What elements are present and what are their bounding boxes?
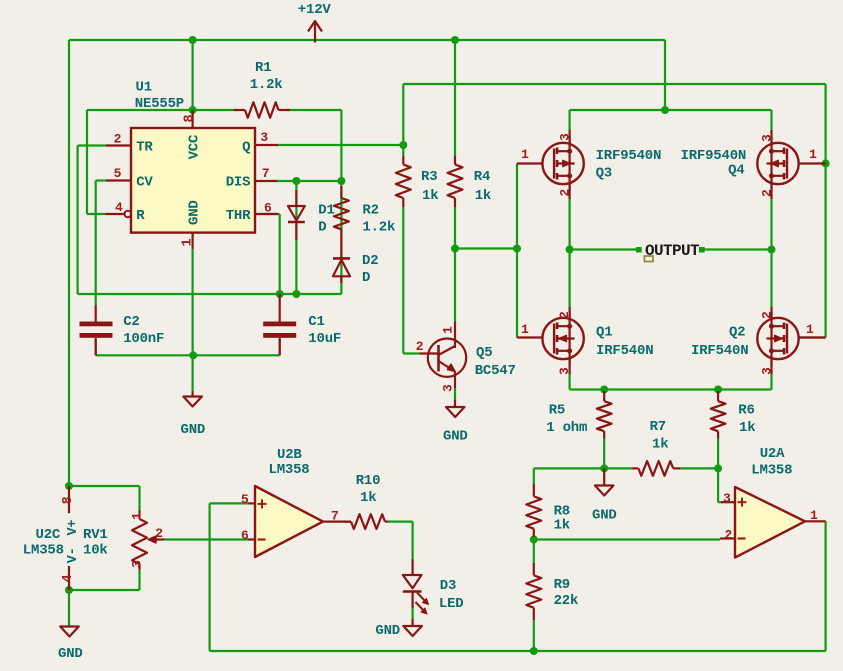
junction R5/R7/GND [600, 464, 608, 472]
svg-text:3: 3 [760, 367, 775, 375]
svg-text:IRF540N: IRF540N [596, 343, 653, 359]
wire R10 to D3 [412, 522, 414, 559]
svg-text:3: 3 [723, 491, 731, 506]
svg-text:V-: V- [66, 547, 81, 563]
wire U2A output drop [824, 521, 826, 651]
svg-text:2: 2 [725, 528, 733, 543]
svg-text:R9: R9 [554, 577, 570, 593]
LED D3 [412, 559, 414, 575]
svg-text:3: 3 [760, 134, 775, 142]
wire reset riser [86, 110, 88, 214]
wire R8/R9 node [533, 537, 535, 563]
junction DIS/R2 [337, 177, 345, 185]
junction bridge top [661, 106, 669, 114]
svg-text:R7: R7 [650, 419, 666, 435]
wire sense line y468 [534, 467, 632, 469]
wire TR-THR node y294 [78, 293, 342, 295]
svg-text:R10: R10 [356, 473, 381, 489]
junction U2C V+ node [65, 482, 73, 490]
svg-text:10k: 10k [83, 543, 108, 559]
svg-text:IRF9540N: IRF9540N [596, 148, 662, 164]
svg-text:4: 4 [115, 200, 123, 215]
wire RV1 top drop [138, 486, 140, 510]
svg-text:2: 2 [760, 189, 775, 197]
svg-text:3: 3 [130, 560, 145, 568]
resistor R6 [717, 391, 719, 401]
wire Q2 gate corner [799, 336, 826, 338]
junction THR/C1 node [276, 290, 284, 298]
wire R4 to node [454, 207, 456, 249]
wire +12V to bridge [664, 40, 666, 110]
svg-text:8: 8 [183, 115, 198, 123]
svg-text:D: D [362, 270, 370, 286]
wire bridge bottom [570, 388, 772, 390]
U1 pin 2 TR [106, 144, 131, 146]
ground GND1 (U1/C1/C2) [192, 391, 194, 396]
op-amp U2B LM358 [255, 486, 323, 557]
svg-text:GND: GND [181, 422, 206, 438]
svg-text:1: 1 [521, 147, 529, 162]
U1 pin 3 Q [255, 144, 278, 146]
U1 pin 1 GND [192, 233, 194, 249]
wire R8 drop [533, 468, 535, 484]
svg-text:3: 3 [441, 384, 456, 392]
svg-text:+12V: +12V [298, 2, 332, 18]
IC U1 NE555P body [131, 128, 255, 233]
svg-text:C1: C1 [308, 314, 324, 330]
wire C1 C2 bottom line [95, 339, 97, 355]
svg-text:LM358: LM358 [23, 543, 64, 559]
wire R1 right drop [340, 110, 342, 181]
junction OUTPUT right [768, 246, 776, 254]
svg-text:R2: R2 [362, 203, 378, 219]
svg-text:3: 3 [260, 130, 268, 145]
svg-text:1k: 1k [360, 490, 376, 506]
svg-text:1k: 1k [422, 188, 438, 204]
svg-text:5: 5 [114, 166, 122, 181]
svg-text:DIS: DIS [226, 175, 251, 191]
wire Q2 source drop [770, 373, 772, 390]
svg-text:Q4: Q4 [728, 162, 744, 178]
junction VCC pin [189, 106, 197, 114]
resistor R7 [632, 467, 638, 469]
junction R7/R6/U2A+ [714, 464, 722, 472]
svg-text:6: 6 [264, 200, 272, 215]
resistor R9 [533, 563, 535, 576]
svg-text:3: 3 [557, 367, 572, 375]
junction R4/Q5 collector node [451, 245, 459, 253]
svg-text:R5: R5 [549, 403, 565, 419]
svg-text:Q: Q [242, 140, 250, 156]
wire right gate drop [824, 84, 826, 338]
svg-text:LED: LED [439, 596, 464, 612]
wire DIS line [277, 180, 341, 182]
svg-text:GND: GND [592, 508, 617, 524]
junction top rail / VCC drop [189, 36, 197, 44]
svg-text:GND: GND [443, 429, 468, 445]
junction Q4 gate [822, 160, 830, 168]
svg-text:LM358: LM358 [269, 462, 310, 478]
svg-text:R6: R6 [738, 403, 754, 419]
svg-text:1k: 1k [475, 188, 491, 204]
ground GND2 (Q5) [454, 399, 456, 407]
svg-text:2: 2 [114, 131, 122, 146]
wire Q riser to y84 [402, 84, 404, 145]
junction DIS/D1 [292, 177, 300, 185]
junction gate column [513, 245, 521, 253]
resistor R10 [344, 520, 351, 522]
wire R5 bottom [603, 439, 605, 469]
svg-text:R3: R3 [421, 169, 437, 185]
svg-text:2: 2 [557, 311, 572, 319]
wire U2B plus riser [209, 503, 211, 651]
svg-text:2: 2 [760, 311, 775, 319]
mosfet Q4 IRF9540N [757, 143, 798, 184]
wire +12V top rail [69, 39, 665, 41]
wire Q4 source to Q2 drain column [770, 199, 772, 308]
wire R4 drop [454, 40, 456, 156]
svg-text:D: D [318, 220, 326, 236]
svg-text:R4: R4 [474, 169, 490, 185]
U1 pin 7 DIS [255, 180, 277, 182]
power symbol +12V [314, 21, 316, 43]
svg-text:D2: D2 [362, 253, 378, 269]
wire bottom feedback rail [210, 650, 826, 652]
wire OUTPUT right segment [699, 248, 772, 250]
U1 pin 8 VCC [192, 110, 194, 128]
wire left rail [68, 40, 70, 486]
wire mid gate link [455, 247, 517, 249]
svg-text:1: 1 [806, 322, 814, 337]
op-amp U2C power unit LM358 [68, 486, 70, 513]
svg-text:1: 1 [521, 322, 529, 337]
wire U2C top link [69, 485, 140, 487]
svg-text:IRF540N: IRF540N [691, 343, 748, 359]
junction R5 top [600, 386, 608, 394]
wire R6 bottom [717, 439, 719, 469]
wire R9 bottom [533, 620, 535, 651]
svg-text:1 ohm: 1 ohm [546, 420, 587, 436]
svg-text:LM358: LM358 [751, 463, 792, 479]
svg-text:D3: D3 [440, 578, 456, 594]
wire CV to C2 [96, 179, 106, 181]
wire node VCC-R line y110 [87, 109, 239, 111]
svg-text:100nF: 100nF [123, 331, 164, 347]
svg-text:8: 8 [61, 496, 76, 504]
svg-text:RV1: RV1 [83, 527, 108, 543]
svg-text:4: 4 [61, 575, 76, 583]
junction GND drop [189, 351, 197, 359]
svg-text:TR: TR [136, 140, 153, 156]
svg-text:22k: 22k [554, 593, 579, 609]
wire U1 GND drop [192, 249, 194, 391]
resistor R1 [234, 109, 245, 111]
svg-text:U2C: U2C [36, 527, 61, 543]
wire U2C to GND [68, 590, 70, 626]
svg-text:GND: GND [187, 200, 203, 225]
wire RV1 bottom drop [138, 570, 140, 590]
svg-text:1k: 1k [739, 420, 755, 436]
svg-text:2: 2 [416, 339, 424, 354]
svg-text:R: R [136, 208, 145, 224]
ground GND3 (R5/R7) [603, 468, 605, 485]
svg-text:VCC: VCC [187, 134, 203, 159]
diode D2 [333, 257, 350, 260]
svg-text:1: 1 [441, 326, 456, 334]
wire D3 to GND [412, 608, 414, 619]
junction U2C V- node [65, 586, 73, 594]
U1 pin 6 THR [255, 213, 278, 215]
wire D1 column [295, 181, 297, 294]
svg-text:1.2k: 1.2k [362, 220, 395, 236]
capacitor C2 [95, 305, 97, 322]
U1 pin 4 R inverted [106, 213, 125, 215]
svg-text:3: 3 [558, 133, 573, 141]
resistor R4 [454, 156, 456, 165]
junction bottom rail R9 [530, 647, 538, 655]
transistor Q5 BC547 [428, 339, 466, 377]
wire RV1 wiper to U2B minus [165, 538, 248, 540]
svg-text:U2A: U2A [760, 446, 785, 462]
svg-text:R1: R1 [255, 60, 271, 76]
U1 pin 5 CV [106, 179, 131, 181]
svg-text:NE555P: NE555P [135, 96, 184, 112]
svg-text:2: 2 [558, 189, 573, 197]
junction top rail / R4 drop [451, 36, 459, 44]
svg-text:1: 1 [809, 147, 817, 162]
svg-text:THR: THR [226, 208, 251, 224]
svg-text:V+: V+ [66, 520, 81, 536]
wire TR net riser [78, 144, 106, 146]
svg-text:5: 5 [241, 492, 249, 507]
wire R3 column [402, 145, 404, 156]
svg-text:7: 7 [331, 509, 339, 524]
svg-text:1: 1 [130, 512, 145, 520]
wire U2A minus line [534, 538, 720, 540]
junction D1 bottom [292, 290, 300, 298]
wire Q3/Q1 gate column [516, 164, 518, 338]
svg-text:Q5: Q5 [476, 345, 492, 361]
svg-text:1k: 1k [652, 436, 668, 452]
op-amp U2A LM358 [735, 487, 805, 558]
svg-text:1: 1 [810, 508, 818, 523]
wire collector drop [454, 249, 456, 322]
svg-text:6: 6 [241, 528, 249, 543]
svg-text:1: 1 [181, 239, 196, 247]
ground GND4 (D3) [412, 619, 414, 626]
wire Q3 source to Q1 drain column [568, 199, 570, 308]
mosfet Q2 IRF540N [757, 318, 798, 359]
wire R2/D2 column [340, 181, 342, 294]
svg-text:U2B: U2B [277, 447, 302, 463]
wire Q output line [278, 144, 403, 146]
resistor R2 [340, 186, 342, 198]
resistor R3 [402, 156, 404, 165]
wire gate bus y84 [403, 83, 825, 85]
mosfet Q3 IRF9540N [542, 143, 583, 184]
wire U2A plus riser [717, 468, 719, 502]
wire Q1 source drop [568, 373, 570, 390]
capacitor C1 [279, 294, 281, 322]
svg-text:GND: GND [375, 623, 400, 639]
svg-text:7: 7 [262, 166, 270, 181]
svg-text:D1: D1 [318, 203, 334, 219]
svg-text:Q3: Q3 [596, 166, 612, 182]
wire VCC drop to U1 [192, 40, 194, 110]
svg-text:U1: U1 [136, 80, 152, 96]
mosfet Q1 IRF540N [542, 318, 583, 359]
wire THR corner [265, 213, 280, 215]
svg-text:10uF: 10uF [308, 331, 341, 347]
svg-text:GND: GND [58, 646, 83, 662]
svg-text:CV: CV [136, 175, 153, 191]
svg-text:Q1: Q1 [596, 324, 612, 340]
resistor R8 [533, 484, 535, 496]
resistor R5 [603, 391, 605, 401]
svg-text:2: 2 [155, 526, 163, 541]
wire OUTPUT left segment [570, 248, 636, 250]
svg-text:1.2k: 1.2k [250, 77, 283, 93]
junction R6 top [714, 386, 722, 394]
wire U2B out to R10 [388, 520, 413, 522]
svg-text:BC547: BC547 [475, 363, 516, 379]
ground GND5 (U2C) [60, 627, 79, 637]
Q5 emitter wire [454, 388, 456, 399]
svg-text:Q2: Q2 [729, 324, 745, 340]
junction R8/R9/U2A- [530, 536, 538, 544]
junction OUTPUT left [566, 246, 574, 254]
potentiometer RV1 [138, 510, 140, 519]
wire bridge top [570, 109, 772, 111]
svg-text:1k: 1k [554, 518, 570, 534]
diode D1 [295, 190, 297, 206]
wire U2C bottom link [69, 589, 140, 591]
svg-text:C2: C2 [123, 314, 139, 330]
junction Q/R3 [399, 141, 407, 149]
